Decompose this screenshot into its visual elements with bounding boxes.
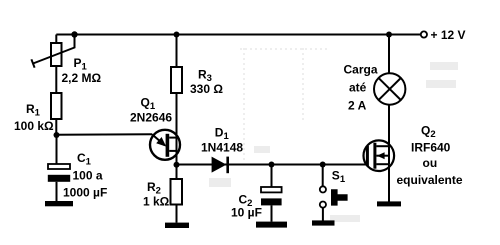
wire: rail to lamp [388,35,390,74]
wire: top +12V rail [56,34,421,36]
MOSFET Q2 drain stub [376,145,389,147]
wire: P1 top lead [55,35,57,44]
svg-text:2 A: 2 A [348,98,367,112]
capacitor C1 bottom plate [48,175,70,182]
wire: R2 to ground [176,205,178,223]
lamp X [379,78,401,100]
wire: node B to R2 [176,165,178,179]
junction dot S1 [320,162,326,168]
svg-text:2,2 MΩ: 2,2 MΩ [62,71,102,85]
MOSFET Q2 body arrow [377,152,385,159]
svg-text:equivalente: equivalente [397,173,463,187]
ground (S1) [312,220,335,225]
wire: node A to Q1 emitter [56,133,152,136]
wire: lamp to Q2 drain [388,105,390,146]
potentiometer P1 body [51,43,62,66]
switch S1 lower contact [320,202,326,208]
transistor Q1 base stubs [169,137,176,139]
diode D1 triangle [212,157,227,173]
wire: P1 wiper riser to rail [33,35,75,64]
MOSFET Q2 channel bar [373,143,376,169]
diode D1 cathode bar [226,157,229,174]
wire: R1 to node A [55,119,57,135]
ground (C1) [45,201,73,206]
svg-text:ou: ou [423,156,438,170]
wire: C1 to ground [56,182,58,202]
wire: C2 node to C2 [271,165,273,188]
faint scan artifact: light smudges [209,62,458,222]
svg-text:100 kΩ: 100 kΩ [14,119,54,133]
wire: R3 to node B (through Q1 bases) [176,93,178,165]
wire: node A to C1 [56,135,58,164]
resistor R3 body [171,67,182,93]
node B junction dot [174,162,180,168]
junction dot C2 [269,162,275,168]
switch S1 upper contact [320,186,326,192]
resistor R2 body [171,179,183,205]
junction dot P1 wiper on rail [71,31,77,37]
capacitor C2 top plate [261,187,282,192]
svg-text:1000 µF: 1000 µF [63,186,107,200]
ground (Q2) [377,201,401,206]
faint scan artifact: dotted box middle [240,48,330,160]
ground (C2) [256,222,287,228]
switch S1 button actuator [331,189,348,205]
junction dot R3 on rail [174,32,180,38]
transistor Q1 base bar [166,134,170,157]
capacitor C1 top plate [48,164,70,169]
node A junction dot [54,132,60,138]
transistor Q1 circle [150,130,180,160]
resistor R1 body [51,93,62,119]
MOSFET Q2 circle [364,140,395,171]
wire: S1 node down to switch [322,165,324,187]
wire: Q1 emitter diagonal [152,134,165,145]
MOSFET Q2 right vertical [388,146,390,164]
MOSFET Q2 body stub [376,155,389,157]
wire: P1 wiper end tick [31,59,34,67]
transistor Q1 emitter arrow [156,137,166,147]
svg-text:até: até [349,81,367,95]
svg-text:Carga: Carga [344,63,378,77]
svg-text:100 a: 100 a [73,168,103,182]
wire: node B to Q2 gate (main horizontal) [177,164,368,166]
junction dot lamp on rail [386,32,392,38]
svg-text:+ 12 V: + 12 V [431,28,466,42]
svg-text:1 kΩ: 1 kΩ [143,195,170,209]
svg-text:330 Ω: 330 Ω [190,82,223,96]
svg-text:IRF640: IRF640 [411,140,451,154]
wire: C2 to ground [271,205,273,221]
capacitor C2 bottom plate [261,198,282,205]
svg-text:1N4148: 1N4148 [201,141,243,155]
svg-text:10 µF: 10 µF [231,206,262,220]
ground (R2) [165,223,189,228]
+12V terminal circle [421,31,427,37]
svg-text:2N2646: 2N2646 [130,110,172,124]
MOSFET Q2 gate bar [366,146,369,166]
wire: Q2 source to ground [388,164,390,201]
wire: P1 to R1 [55,66,57,93]
wire: rail to R3 [176,35,178,68]
lamp (Carga) circle [374,73,405,104]
MOSFET Q2 source stub [376,163,389,165]
wire: S1 to ground [322,208,324,221]
